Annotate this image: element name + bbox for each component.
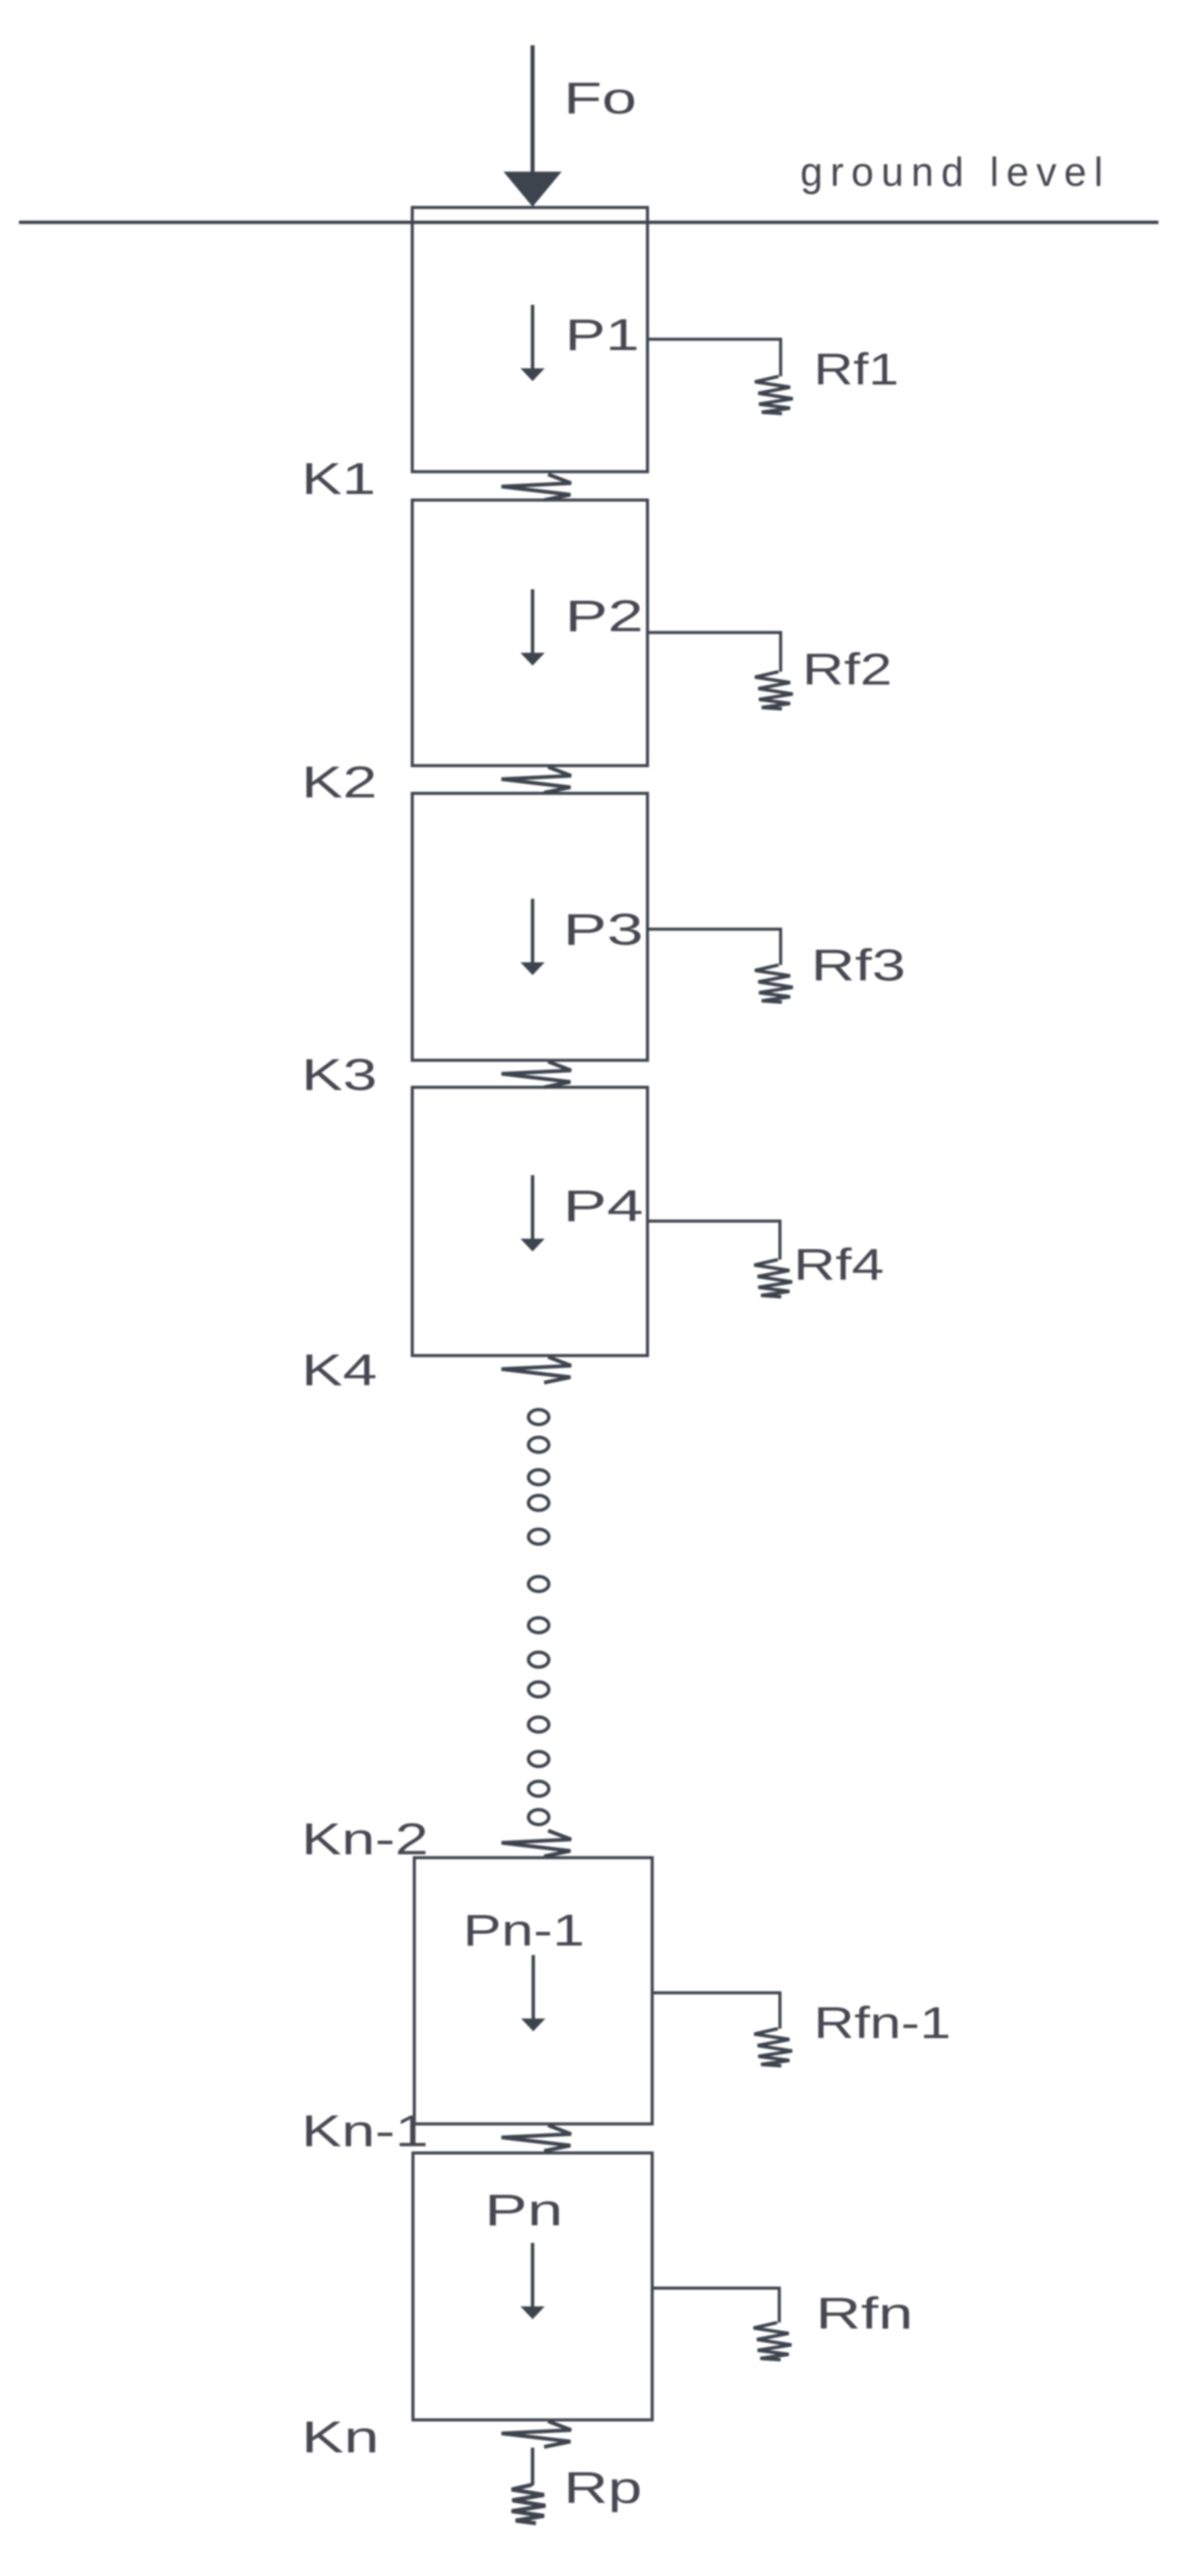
- svg-text:Rp: Rp: [564, 2462, 642, 2512]
- svg-text:Rfn: Rfn: [816, 2288, 913, 2338]
- svg-text:K3: K3: [301, 1049, 377, 1099]
- svg-text:P2: P2: [565, 591, 643, 641]
- svg-text:Kn: Kn: [301, 2412, 379, 2462]
- svg-text:Rf3: Rf3: [811, 940, 906, 990]
- svg-text:K2: K2: [301, 757, 377, 807]
- svg-text:Pn: Pn: [485, 2185, 563, 2235]
- svg-text:P3: P3: [563, 904, 643, 954]
- svg-text:Kn-1: Kn-1: [301, 2106, 428, 2156]
- svg-text:P1: P1: [565, 309, 639, 360]
- svg-text:Rf2: Rf2: [802, 644, 892, 694]
- svg-text:Rfn-1: Rfn-1: [814, 1998, 951, 2048]
- svg-text:P4: P4: [563, 1181, 643, 1231]
- svg-text:K4: K4: [301, 1345, 377, 1395]
- svg-text:Pn-1: Pn-1: [463, 1905, 585, 1955]
- svg-text:ground level: ground level: [800, 149, 1110, 195]
- svg-text:Rf4: Rf4: [793, 1239, 884, 1289]
- svg-text:K1: K1: [301, 453, 376, 503]
- svg-text:Fo: Fo: [564, 73, 637, 123]
- svg-text:Kn-2: Kn-2: [301, 1814, 428, 1864]
- svg-text:Rf1: Rf1: [814, 344, 899, 394]
